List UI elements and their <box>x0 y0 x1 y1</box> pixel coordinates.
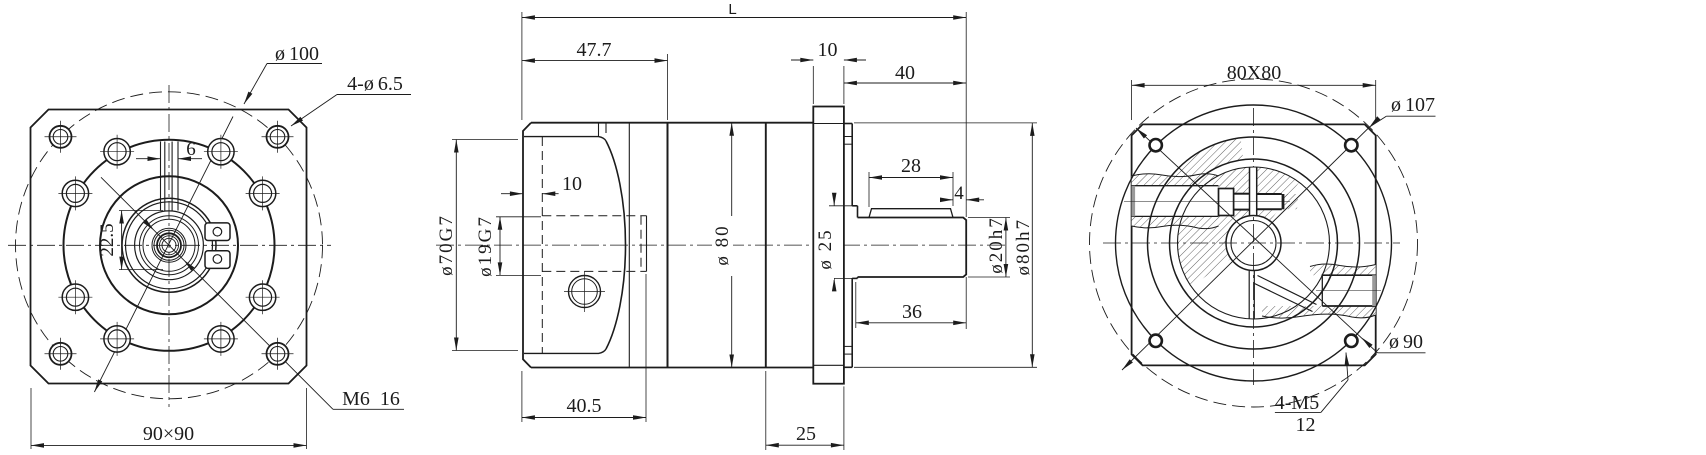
svg-text:M6 16: M6 16 <box>342 388 400 410</box>
svg-text:ø 80: ø 80 <box>712 224 733 265</box>
svg-text:10: 10 <box>562 173 582 195</box>
svg-text:12: 12 <box>1296 414 1316 436</box>
svg-text:ø20h7: ø20h7 <box>986 216 1007 274</box>
svg-text:28: 28 <box>901 155 921 177</box>
svg-text:ø19G7: ø19G7 <box>475 215 496 277</box>
svg-text:36: 36 <box>902 301 922 323</box>
svg-text:4-ø 6.5: 4-ø 6.5 <box>347 73 403 95</box>
svg-text:ø70G7: ø70G7 <box>436 214 457 276</box>
svg-text:22.5: 22.5 <box>97 223 118 256</box>
svg-text:L: L <box>728 1 736 18</box>
svg-text:ø 100: ø 100 <box>275 43 319 65</box>
svg-text:25: 25 <box>796 423 816 445</box>
svg-text:10: 10 <box>818 39 838 61</box>
svg-text:90×90: 90×90 <box>143 423 194 445</box>
svg-text:6: 6 <box>186 139 196 160</box>
svg-text:40: 40 <box>895 62 915 84</box>
svg-text:ø 107: ø 107 <box>1391 94 1435 116</box>
svg-text:4: 4 <box>954 183 964 204</box>
svg-text:ø 90: ø 90 <box>1389 331 1423 353</box>
svg-text:47.7: 47.7 <box>577 39 612 61</box>
svg-text:4-M5: 4-M5 <box>1275 392 1319 414</box>
svg-text:ø 25: ø 25 <box>815 228 836 269</box>
svg-text:ø80h7: ø80h7 <box>1013 218 1034 276</box>
svg-text:80X80: 80X80 <box>1227 62 1281 84</box>
svg-text:40.5: 40.5 <box>567 395 602 417</box>
